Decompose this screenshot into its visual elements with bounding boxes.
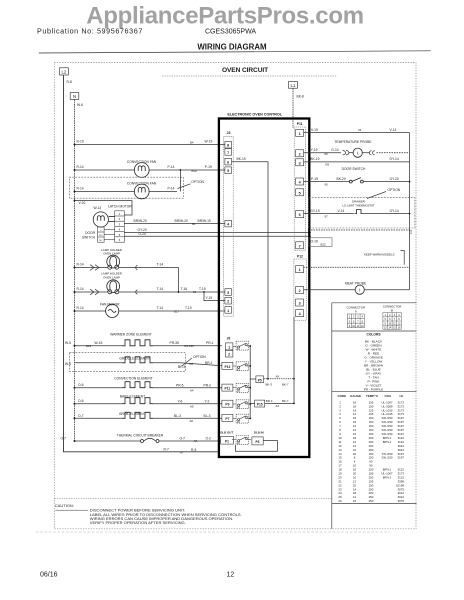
drawer lo limit thermostat label xyxy=(342,199,374,207)
temperature probe sensor xyxy=(353,148,409,157)
option callout drawer xyxy=(367,188,401,199)
wire Y-19 86 G-14 temperature probe xyxy=(304,148,354,156)
svg-text:K4: K4 xyxy=(237,407,241,409)
relay K6 xyxy=(232,436,251,446)
connector A grid xyxy=(347,314,364,328)
P11 pin 4 xyxy=(296,178,304,185)
svg-text:BK-8: BK-8 xyxy=(297,95,304,99)
P12 pin 4 xyxy=(296,310,304,317)
svg-text:A: A xyxy=(355,309,357,313)
svg-text:Publication No: 5995676367: Publication No: 5995676367 xyxy=(37,27,143,36)
svg-text:5197: 5197 xyxy=(398,456,405,460)
svg-text:8: 8 xyxy=(398,318,400,321)
oven door switch xyxy=(349,177,409,183)
svg-text:86: 86 xyxy=(325,152,329,156)
J3 pin 8 xyxy=(225,141,232,148)
svg-text:BR/W-20: BR/W-20 xyxy=(134,219,147,223)
svg-text:5: 5 xyxy=(349,320,351,323)
svg-text:4: 4 xyxy=(299,312,302,316)
P11 pin 3 xyxy=(296,159,304,166)
wire Y-19 into J3 pin 2 xyxy=(204,292,225,301)
svg-text:6: 6 xyxy=(299,213,301,217)
table box divider xyxy=(332,303,417,529)
relay K4 xyxy=(233,400,250,410)
svg-text:26: 26 xyxy=(338,499,342,503)
svg-text:GY-19: GY-19 xyxy=(310,209,319,213)
svg-text:T-14: T-14 xyxy=(157,263,164,267)
svg-text:L2: L2 xyxy=(61,69,66,74)
svg-text:6: 6 xyxy=(227,161,229,165)
svg-text:O-20: O-20 xyxy=(139,232,146,236)
svg-text:9: 9 xyxy=(385,322,387,325)
svg-text:6: 6 xyxy=(353,320,355,323)
wire R-19 to W-19 into J3 pin 8 xyxy=(75,140,226,145)
svg-text:3: 3 xyxy=(357,316,359,319)
svg-text:SWITCH: SWITCH xyxy=(82,236,96,240)
svg-text:W-14: W-14 xyxy=(94,206,102,210)
svg-text:BK-19: BK-19 xyxy=(310,157,319,161)
connector P7 xyxy=(222,414,233,421)
svg-text:THERMAL CIRCUIT BREAKER: THERMAL CIRCUIT BREAKER xyxy=(117,434,164,438)
J9 pin 2 xyxy=(225,350,233,357)
svg-text:P1: P1 xyxy=(225,439,229,443)
svg-text:P-19: P-19 xyxy=(205,165,212,169)
svg-text:10: 10 xyxy=(352,325,355,328)
relay bus xyxy=(249,345,251,419)
wire R-14 / P-14 / P-19 into J3 pin 5 xyxy=(75,165,226,173)
svg-text:11: 11 xyxy=(393,322,396,325)
svg-text:R-14: R-14 xyxy=(77,165,84,169)
svg-text:BAKE ELEMENT: BAKE ELEMENT xyxy=(120,395,145,399)
svg-text:1: 1 xyxy=(119,212,121,216)
svg-text:A3: A3 xyxy=(276,404,280,408)
svg-text:K3: K3 xyxy=(237,391,241,393)
svg-text:B4: B4 xyxy=(190,362,194,366)
svg-text:BPN-1: BPN-1 xyxy=(383,440,392,444)
wire O-19 B12 from P11 pin 7 xyxy=(309,238,332,247)
svg-text:GY-20: GY-20 xyxy=(390,177,399,181)
svg-text:P15: P15 xyxy=(257,403,263,407)
svg-text:BPN-1: BPN-1 xyxy=(383,475,392,479)
svg-text:R-14: R-14 xyxy=(77,263,84,267)
svg-text:1: 1 xyxy=(227,309,229,313)
svg-text:95: 95 xyxy=(325,183,329,187)
keep warm models callout xyxy=(364,251,404,265)
svg-text:BK-3: BK-3 xyxy=(266,382,273,386)
svg-text:O-6: O-6 xyxy=(78,383,84,387)
svg-text:DLB IN: DLB IN xyxy=(254,430,264,434)
svg-text:56: 56 xyxy=(193,290,197,294)
svg-text:VERIFY PROPER OPERATION AFTER: VERIFY PROPER OPERATION AFTER SERVICING. xyxy=(90,520,186,525)
svg-text:B17: B17 xyxy=(174,309,180,313)
svg-text:9: 9 xyxy=(349,325,351,328)
svg-text:1: 1 xyxy=(349,316,351,319)
svg-text:CODE: CODE xyxy=(338,394,347,398)
svg-text:6: 6 xyxy=(389,318,391,321)
griddle element xyxy=(65,357,222,369)
svg-text:7: 7 xyxy=(227,151,229,155)
latch connector strip xyxy=(115,211,125,242)
J3 pin 5 xyxy=(225,167,232,174)
svg-text:TEMPERATURE PROBE: TEMPERATURE PROBE xyxy=(334,140,372,144)
relay K1 xyxy=(233,341,250,351)
svg-text:8: 8 xyxy=(227,144,229,148)
wire GY-19 97 V-14 thermostat GY-14 xyxy=(304,209,354,219)
wire W-6 bus from N down left side xyxy=(75,99,84,441)
svg-text:COA: COA xyxy=(385,394,393,398)
svg-text:P11: P11 xyxy=(225,387,231,391)
wire GY-20 across xyxy=(124,228,311,233)
svg-text:GY-14: GY-14 xyxy=(390,209,399,213)
drawer lo limit thermostat xyxy=(355,209,410,214)
svg-text:T-16: T-16 xyxy=(181,287,188,291)
svg-text:2: 2 xyxy=(299,289,301,293)
svg-text:3075: 3075 xyxy=(398,499,405,503)
wire O-20 across xyxy=(124,232,311,236)
svg-text:J3: J3 xyxy=(227,131,231,135)
svg-text:2: 2 xyxy=(228,353,230,357)
svg-text:t: t xyxy=(359,287,361,292)
svg-text:DOOR: DOOR xyxy=(85,231,96,235)
svg-text:J9: J9 xyxy=(227,336,231,340)
svg-text:12: 12 xyxy=(227,572,235,579)
svg-text:4: 4 xyxy=(119,228,121,232)
svg-text:A9: A9 xyxy=(276,375,280,379)
svg-text:MEAT PROBE: MEAT PROBE xyxy=(345,281,367,285)
connector P11 outline xyxy=(294,127,305,251)
wire R-14 to lamp 1 xyxy=(75,263,108,271)
svg-text:OPTION: OPTION xyxy=(388,188,401,192)
lamp holder oven lamp 2 labels xyxy=(101,272,122,280)
svg-text:N9: N9 xyxy=(325,163,329,167)
svg-text:P9: P9 xyxy=(225,403,229,407)
latch connector pin numbers xyxy=(119,212,121,242)
svg-text:TEMP.°C: TEMP.°C xyxy=(366,394,379,398)
svg-text:7: 7 xyxy=(357,320,359,323)
svg-text:K2: K2 xyxy=(237,369,241,371)
svg-text:B13: B13 xyxy=(86,344,92,348)
svg-text:W-15: W-15 xyxy=(95,341,103,345)
wire R-8 bus from L2 down left side xyxy=(64,75,220,452)
svg-text:5: 5 xyxy=(385,318,387,321)
svg-text:R-5: R-5 xyxy=(191,448,196,452)
svg-text:B1: B1 xyxy=(192,222,196,226)
wire gauge table header xyxy=(338,394,404,398)
connector P3 xyxy=(252,437,263,445)
header rule bottom xyxy=(39,51,431,53)
wire P12 pin1 keep warm xyxy=(304,266,410,268)
svg-text:BR/W-19: BR/W-19 xyxy=(198,219,211,223)
svg-text:CONVECTION ELEMENT: CONVECTION ELEMENT xyxy=(114,377,152,381)
svg-text:T-19: T-19 xyxy=(185,306,192,310)
svg-text:7: 7 xyxy=(299,244,301,248)
svg-text:4: 4 xyxy=(299,181,302,185)
door switch label xyxy=(82,231,96,240)
colors legend xyxy=(364,339,383,391)
svg-text:AppliancePartsPros.com: AppliancePartsPros.com xyxy=(86,3,364,30)
svg-text:A7: A7 xyxy=(180,451,184,455)
svg-text:A8: A8 xyxy=(194,439,198,443)
svg-text:O-7: O-7 xyxy=(180,437,186,441)
wire BR/W-20 to J3 pin 4 xyxy=(124,219,225,226)
svg-text:B4.135: B4.135 xyxy=(185,344,195,348)
svg-text:33: 33 xyxy=(358,128,362,132)
svg-text:Y-2: Y-2 xyxy=(205,399,210,403)
P11 pin 7 xyxy=(296,242,304,249)
svg-text:PR-2: PR-2 xyxy=(204,383,212,387)
node L1 xyxy=(289,82,298,89)
svg-text:3: 3 xyxy=(394,314,396,317)
svg-text:t: t xyxy=(357,150,359,155)
svg-text:GY-14: GY-14 xyxy=(390,157,399,161)
relay K5 xyxy=(233,414,250,424)
connector A label xyxy=(347,305,366,313)
svg-text:BL-3: BL-3 xyxy=(174,414,181,418)
svg-text:T-14: T-14 xyxy=(157,306,164,310)
svg-text:P-14: P-14 xyxy=(168,165,175,169)
svg-text:3: 3 xyxy=(299,161,301,165)
connector P11 element xyxy=(222,384,233,391)
svg-text:V-19: V-19 xyxy=(311,128,318,132)
lamp 1 xyxy=(107,255,120,269)
svg-text:1: 1 xyxy=(228,345,230,349)
svg-text:K1: K1 xyxy=(237,349,241,351)
door switch contact block xyxy=(98,227,115,242)
svg-text:CONVECTION FAN: CONVECTION FAN xyxy=(127,182,157,186)
svg-text:1: 1 xyxy=(299,268,301,272)
svg-text:3: 3 xyxy=(119,222,121,226)
wire R-14 / P-14 optional fan xyxy=(75,187,178,192)
svg-text:O-7: O-7 xyxy=(61,436,67,440)
wire gauge table rows xyxy=(338,400,404,503)
svg-text:4: 4 xyxy=(362,316,364,319)
svg-text:BR-3: BR-3 xyxy=(266,399,273,403)
svg-text:PR - PURPLE: PR - PURPLE xyxy=(364,387,383,391)
svg-text:06/16: 06/16 xyxy=(40,572,58,579)
svg-text:P-14: P-14 xyxy=(168,187,175,191)
J3 pin 1 xyxy=(225,307,232,314)
wire V-19 33 V-14 from P11 pin 1 xyxy=(304,128,410,133)
svg-text:O-6: O-6 xyxy=(78,399,84,403)
svg-text:2: 2 xyxy=(353,316,355,319)
svg-text:8: 8 xyxy=(362,320,364,323)
svg-text:CAUTION:: CAUTION: xyxy=(55,503,74,508)
connector P12 outline xyxy=(294,259,306,321)
svg-text:B10: B10 xyxy=(192,169,198,173)
svg-text:5: 5 xyxy=(299,191,301,195)
svg-text:250: 250 xyxy=(369,499,374,503)
P11 pin 5 xyxy=(296,189,304,196)
svg-text:2: 2 xyxy=(119,217,121,221)
meat probe sensor xyxy=(355,285,409,294)
svg-text:BR-1: BR-1 xyxy=(205,361,213,365)
svg-text:ELECTRONIC OVEN CONTROL: ELECTRONIC OVEN CONTROL xyxy=(227,112,282,116)
warmer zone element xyxy=(65,340,222,348)
svg-text:R-14: R-14 xyxy=(77,306,84,310)
wire BK-8 from L1 down into control xyxy=(293,88,304,128)
svg-text:DLB OUT: DLB OUT xyxy=(220,430,233,434)
svg-text:NO: NO xyxy=(99,235,103,237)
right bus xyxy=(409,133,411,290)
connector P1 xyxy=(221,436,234,444)
svg-text:C: C xyxy=(100,230,102,232)
svg-text:P7: P7 xyxy=(225,417,229,421)
svg-text:W-5: W-5 xyxy=(65,362,71,366)
svg-text:5: 5 xyxy=(227,169,229,173)
svg-text:O-7: O-7 xyxy=(78,414,84,418)
svg-text:OVEN LAMP: OVEN LAMP xyxy=(103,276,120,280)
wire T-14 from lamp 1 down to lamp2 wire xyxy=(119,263,179,292)
convection element xyxy=(75,382,222,393)
diagram border frame xyxy=(54,63,416,529)
svg-text:6: 6 xyxy=(119,238,121,242)
svg-text:BK-7: BK-7 xyxy=(282,382,289,386)
P12 pin 1 xyxy=(296,266,304,273)
svg-text:1: 1 xyxy=(385,314,387,317)
J3 pin 3 xyxy=(225,289,232,296)
connector J3 outline xyxy=(224,137,234,317)
svg-text:CGES3065PWA: CGES3065PWA xyxy=(205,29,256,36)
svg-text:DOOR SWITCH: DOOR SWITCH xyxy=(342,167,366,171)
svg-text:2: 2 xyxy=(389,314,391,317)
latch motor label xyxy=(94,205,133,211)
P11 pin 2 xyxy=(296,150,304,157)
svg-text:V-14: V-14 xyxy=(390,128,397,132)
svg-text:V-20: V-20 xyxy=(79,201,86,205)
svg-text:W-5: W-5 xyxy=(65,341,71,345)
svg-text:12: 12 xyxy=(361,325,364,328)
latch motor M xyxy=(93,212,114,227)
wire BR-3 A3 BK-7 xyxy=(265,399,295,408)
svg-text:4: 4 xyxy=(227,223,230,227)
bake element xyxy=(75,398,222,409)
connector P13 xyxy=(222,362,233,369)
svg-text:K6: K6 xyxy=(237,443,241,445)
svg-text:B: B xyxy=(391,308,393,312)
svg-text:OVEN CIRCUIT: OVEN CIRCUIT xyxy=(222,67,268,74)
J3 pin 4 xyxy=(225,220,232,227)
svg-text:R-14: R-14 xyxy=(77,187,84,191)
wire BK-19 GY-14 from P11 pin 3 xyxy=(304,157,410,167)
svg-text:R-7: R-7 xyxy=(164,447,169,451)
connector B label xyxy=(383,305,402,313)
svg-text:W-19: W-19 xyxy=(205,140,213,144)
svg-text:5: 5 xyxy=(119,233,121,237)
svg-text:BK-7: BK-7 xyxy=(282,399,289,403)
wire DLB loop xyxy=(236,441,278,452)
svg-text:A4: A4 xyxy=(190,388,194,392)
svg-text:10: 10 xyxy=(388,322,391,325)
J9 pin 1 xyxy=(225,343,233,350)
caution divider xyxy=(54,498,332,500)
option callout xyxy=(178,180,205,188)
option callout griddle xyxy=(182,355,206,366)
relay K2 xyxy=(233,362,250,372)
fan motor xyxy=(106,304,119,317)
svg-text:BR/W-20: BR/W-20 xyxy=(175,219,188,223)
svg-text:OPTION: OPTION xyxy=(191,180,204,184)
wire P12 pin4 down to P15 xyxy=(293,317,295,403)
svg-text:R-14: R-14 xyxy=(77,287,84,291)
option dashed box drawer thermostat xyxy=(309,198,415,228)
electronic oven control box U1 xyxy=(219,119,309,458)
svg-text:NC: NC xyxy=(99,240,103,242)
J3 pin 6 xyxy=(225,158,232,165)
svg-text:R-8: R-8 xyxy=(67,80,72,84)
svg-text:O-19: O-19 xyxy=(311,239,318,243)
wire A9 BK-3 BK-7 xyxy=(264,375,295,387)
P11 pin 6 xyxy=(296,211,304,218)
svg-text:V-14: V-14 xyxy=(338,209,345,213)
P11 pin 1 xyxy=(296,129,304,136)
P12 pin 3 xyxy=(296,299,304,306)
svg-text:A6: A6 xyxy=(190,419,194,423)
J3 pin 7 xyxy=(225,149,232,156)
svg-text:WARMER ZONE ELEMENT: WARMER ZONE ELEMENT xyxy=(110,332,151,336)
svg-text:7: 7 xyxy=(394,318,396,321)
svg-text:SXL/150: SXL/150 xyxy=(381,456,392,460)
svg-text:BK-20: BK-20 xyxy=(337,177,346,181)
caution note xyxy=(55,503,242,525)
svg-text:B4: B4 xyxy=(190,141,194,145)
wire P-19 95 BK-20 door switch GY-20 xyxy=(304,177,350,187)
svg-text:P12: P12 xyxy=(297,255,303,259)
node N xyxy=(70,93,79,100)
svg-text:A5: A5 xyxy=(190,404,194,408)
svg-text:P-19: P-19 xyxy=(311,177,318,181)
svg-text:N: N xyxy=(73,94,76,99)
faint page artifact line xyxy=(36,531,390,533)
svg-text:Y-19: Y-19 xyxy=(311,148,318,152)
svg-text:1: 1 xyxy=(299,132,301,136)
svg-text:B12: B12 xyxy=(321,243,327,247)
node L2 xyxy=(60,68,69,75)
oven circuit underline xyxy=(162,75,337,77)
svg-text:BROIL ELEMENT: BROIL ELEMENT xyxy=(119,412,145,416)
wire to meat probe xyxy=(304,289,355,291)
svg-text:PR-1: PR-1 xyxy=(206,341,214,345)
option dashed box convection fan xyxy=(69,177,183,198)
svg-text:GAUGE: GAUGE xyxy=(350,394,361,398)
svg-text:Y-6: Y-6 xyxy=(178,399,183,403)
svg-text:4: 4 xyxy=(398,314,400,317)
connector P5 xyxy=(250,376,263,383)
lamp holder oven lamp 1 labels xyxy=(101,248,122,256)
connector P15 xyxy=(250,400,265,407)
connector P9 xyxy=(222,400,233,407)
svg-text:P5: P5 xyxy=(258,378,262,382)
GY-20 wire east segment xyxy=(311,230,411,234)
convection fan motor M xyxy=(134,163,149,178)
P12 pin 2 xyxy=(296,287,304,294)
svg-text:3: 3 xyxy=(299,302,301,306)
svg-text:BK-19: BK-19 xyxy=(237,157,246,161)
svg-text:11: 11 xyxy=(357,325,360,328)
svg-text:K5: K5 xyxy=(237,422,241,424)
svg-text:OPTION: OPTION xyxy=(193,355,206,359)
svg-text:PR-5: PR-5 xyxy=(176,383,184,387)
svg-text:P3: P3 xyxy=(255,440,259,444)
optional convection fan motor M xyxy=(134,184,149,199)
svg-text:97: 97 xyxy=(325,215,329,219)
svg-text:UL: UL xyxy=(400,394,404,398)
svg-text:OVEN LAMP: OVEN LAMP xyxy=(103,252,120,256)
svg-text:12: 12 xyxy=(398,322,401,325)
wire R-7 A7 R-5 bottom return xyxy=(164,447,197,454)
svg-text:G-14: G-14 xyxy=(331,148,338,152)
svg-text:BL-3: BL-3 xyxy=(204,414,211,418)
svg-text:2: 2 xyxy=(227,300,229,304)
